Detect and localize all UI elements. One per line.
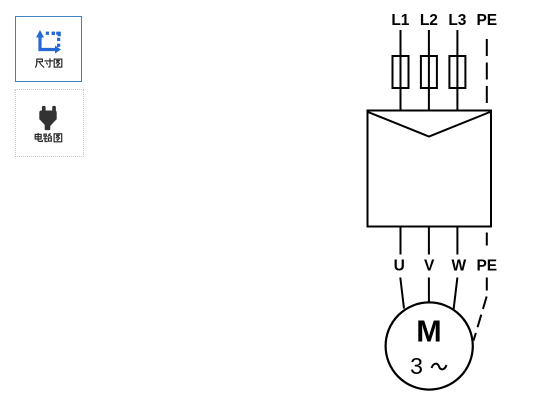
- svg-text:PE: PE: [476, 12, 497, 29]
- svg-text:V: V: [424, 258, 435, 275]
- svg-text:W: W: [451, 258, 466, 275]
- svg-text:PE: PE: [476, 258, 497, 275]
- svg-text:L3: L3: [448, 12, 466, 29]
- svg-text:U: U: [394, 258, 405, 275]
- svg-text:L2: L2: [420, 12, 438, 29]
- svg-text:3: 3: [410, 353, 423, 379]
- svg-text:L1: L1: [391, 12, 409, 29]
- svg-text:M: M: [416, 315, 441, 349]
